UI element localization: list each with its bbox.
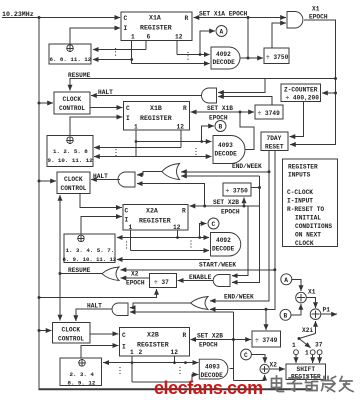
wire adder1 to adder2 — [306, 298, 315, 308]
wire switch arm — [299, 334, 316, 339]
svg-text:1: 1 — [130, 349, 134, 356]
svg-text:CONDITIONS: CONDITIONS — [295, 223, 332, 230]
decoder 4093 DECODE (X2B) — [199, 359, 228, 379]
svg-text:CLOCK: CLOCK — [64, 176, 83, 183]
wire SET X2B EPOCH (X2A row) — [190, 205, 260, 207]
wire halt gate1 input B from 3749 — [218, 97, 272, 106]
box CLOCK CONTROL 2 — [57, 172, 90, 194]
svg-text:CLOCK: CLOCK — [295, 240, 314, 247]
wire 3750-2 output to end/week vertical — [251, 187, 260, 189]
divider 3750 (X1A) — [264, 48, 289, 64]
wire 7day out1 down to OR3 in1 — [210, 151, 269, 301]
wire halt gate2 input 2 from set-x2b — [137, 184, 205, 206]
svg-text:REGISTER: REGISTER — [137, 342, 169, 349]
svg-text:÷ 3749: ÷ 3749 — [258, 110, 281, 117]
box CLOCK CONTROL 3 — [53, 323, 91, 344]
svg-text:4092: 4092 — [216, 51, 231, 58]
svg-text:C-CLOCK: C-CLOCK — [287, 189, 313, 196]
and-gate X1 EPOCH — [287, 12, 303, 29]
wire clock bus to clock control 3 — [38, 329, 41, 332]
watermark chinese characters — [272, 376, 354, 392]
divider 37 — [150, 274, 177, 288]
register X2A — [123, 205, 188, 231]
svg-text:1: 1 — [131, 34, 135, 41]
svg-text:END/WEEK: END/WEEK — [232, 163, 262, 170]
wire X2 into shift register — [269, 368, 285, 370]
svg-text:RESET: RESET — [265, 144, 284, 151]
register SHIFT REGISTER — [286, 364, 326, 380]
svg-text:HALT: HALT — [87, 303, 102, 310]
svg-text:DECODE: DECODE — [212, 246, 235, 253]
svg-text:÷ 400,200: ÷ 400,200 — [286, 95, 320, 102]
node A tap circle — [216, 26, 227, 37]
svg-text:A: A — [220, 29, 224, 36]
and-gate X2A halt (mirrored) — [118, 172, 135, 187]
svg-text:4093: 4093 — [218, 142, 233, 149]
wire A to adder1 — [292, 279, 301, 291]
counter Z-COUNTER — [281, 84, 321, 102]
wire clock line to div37 bottom — [38, 296, 41, 299]
svg-text:8. 9. 10. 11. 12: 8. 9. 10. 11. 12 — [63, 256, 117, 263]
wire Z-counter to 7day reset — [290, 102, 304, 137]
svg-text:DECODE: DECODE — [215, 151, 238, 158]
wire P1 output — [321, 313, 337, 315]
svg-text:I: I — [126, 115, 130, 122]
node A output circle — [281, 274, 292, 285]
svg-text:INITIAL: INITIAL — [295, 215, 321, 222]
wire div37 out to OR2 — [121, 277, 150, 279]
node B output circle — [280, 309, 291, 320]
svg-text:X1: X1 — [312, 6, 320, 13]
xor-box G3 taps 1.3.4.5.7/8.9.10.11.12 — [64, 234, 115, 263]
svg-text:2: 2 — [139, 349, 143, 356]
register X2B — [119, 327, 189, 356]
wire 4093-2 out up to set wire and halt gate — [230, 312, 234, 369]
register X1A — [121, 12, 192, 41]
wire C to X2 adder — [251, 355, 265, 364]
wire contacts into shift register — [295, 355, 297, 363]
wire X2 epoch down to clock control 3 — [59, 274, 61, 321]
wire X2B pin12 feedback — [174, 356, 176, 363]
wire 7day out2 down to OR3 in2 — [210, 151, 275, 310]
svg-text:1: 1 — [134, 124, 138, 131]
svg-text:CLOCK: CLOCK — [63, 96, 82, 103]
and-gate X1B halt (mirrored) — [202, 88, 217, 103]
svg-text:C: C — [125, 208, 129, 215]
svg-text:÷ 3750: ÷ 3750 — [226, 188, 249, 195]
svg-text:6. 8. 11. 12: 6. 8. 11. 12 — [50, 56, 92, 63]
svg-text:REGISTER: REGISTER — [140, 115, 172, 122]
svg-text:R: R — [183, 105, 187, 112]
svg-text:X1A: X1A — [149, 15, 161, 22]
wire halt gate1 input A — [218, 79, 265, 93]
svg-text:C: C — [124, 15, 128, 22]
svg-text:REGISTER: REGISTER — [288, 164, 318, 171]
node ellipsis marks X2A feedback — [126, 241, 127, 248]
svg-text:SET X1B: SET X1B — [207, 105, 233, 112]
svg-text:CONTROL: CONTROL — [59, 105, 85, 112]
svg-text:12: 12 — [177, 124, 185, 131]
svg-text:1: 1 — [129, 224, 133, 231]
wire clock bus to clock control 1 — [38, 102, 41, 105]
svg-text:CONTROL: CONTROL — [61, 185, 87, 192]
svg-text:HALT: HALT — [98, 89, 113, 96]
wire 3750 to X1 epoch gate — [272, 23, 286, 48]
wire 4092 out to divider — [240, 57, 263, 59]
svg-text:REGISTER: REGISTER — [140, 25, 172, 32]
svg-text:ENABLE: ENABLE — [189, 274, 212, 281]
wire 4093 output up to set wire — [240, 112, 254, 150]
wire branch up into divider 3750-2 — [243, 198, 245, 207]
svg-text:RESUME: RESUME — [68, 267, 91, 274]
wire END/WEEK to OR1 — [181, 171, 269, 173]
box CLOCK CONTROL 1 — [54, 92, 90, 114]
register X1B — [123, 102, 189, 130]
or-gate OR2 X2 resume (mirrored) — [102, 267, 119, 281]
wire into Z-counter — [322, 92, 336, 94]
decoder 4092 DECODE (X1A) — [211, 47, 240, 69]
svg-text:B: B — [284, 312, 288, 319]
svg-text:9. 10. 11. 12: 9. 10. 11. 12 — [48, 157, 94, 164]
svg-text:12: 12 — [171, 349, 179, 356]
svg-text:DECODE: DECODE — [213, 59, 236, 66]
wire SET X2B EPOCH (X2B row) — [190, 339, 233, 341]
svg-text:START/WEEK: START/WEEK — [199, 262, 236, 269]
wire OR3 out to halt gate 3 — [130, 303, 191, 308]
svg-text:4093: 4093 — [205, 364, 220, 371]
svg-text:CONTROL: CONTROL — [58, 336, 84, 343]
svg-text:X2i: X2i — [302, 327, 313, 334]
wire XOR1 output to I of X1A — [70, 28, 120, 44]
wire X1A pin1 feedback — [131, 41, 133, 64]
svg-text:6: 6 — [147, 34, 151, 41]
wire XOR2 output to I of X1B — [70, 117, 122, 136]
svg-text:P1: P1 — [323, 307, 331, 314]
wire START/WEEK to OR2 — [121, 269, 275, 271]
adder XOR X1 — [296, 292, 307, 303]
decoder 4092 DECODE (X2A) — [211, 233, 241, 257]
adder XOR P1 — [310, 309, 321, 320]
svg-text:12: 12 — [173, 224, 181, 231]
svg-text:SET X2B: SET X2B — [197, 333, 223, 340]
wire into 3749-2 top — [265, 309, 267, 330]
svg-text:R: R — [182, 208, 186, 215]
svg-text:Z-COUNTER: Z-COUNTER — [284, 87, 318, 94]
wire X2B signal up into adder from below — [233, 375, 264, 381]
wire clock control 3 to C of X2B — [90, 333, 118, 335]
wire clock control 2 to C of X2A — [80, 194, 122, 208]
wire HALT3 to clock control 3 — [76, 309, 113, 321]
svg-text:C: C — [212, 221, 216, 228]
wire enable gate out to div37 — [178, 280, 214, 282]
svg-text:CLOCK: CLOCK — [62, 327, 81, 334]
wire OR2 out to resume bus — [60, 273, 102, 275]
node ellipsis marks X1B feedback — [115, 149, 116, 156]
svg-text:B: B — [219, 124, 223, 131]
svg-text:A: A — [284, 277, 288, 284]
node C output circle — [241, 349, 252, 360]
svg-text:1. 3. 4. 5. 7.: 1. 3. 4. 5. 7. — [66, 247, 115, 254]
svg-text:X2B: X2B — [147, 332, 159, 339]
or-gate OR1 (mirrored) — [162, 164, 180, 180]
svg-text:C: C — [122, 332, 126, 339]
svg-text:X2: X2 — [131, 271, 139, 278]
node ellipsis marks X1A feedback — [115, 48, 116, 56]
svg-text:REGISTER: REGISTER — [139, 218, 171, 225]
wire X1B pin12 feedback — [180, 130, 182, 148]
svg-text:÷ 3749: ÷ 3749 — [255, 337, 278, 344]
svg-text:I: I — [122, 344, 126, 351]
divider 3749 (X1B) — [255, 105, 283, 119]
wire SET X1B EPOCH — [191, 111, 240, 113]
wire X1 EPOCH output down right side — [290, 20, 336, 145]
svg-text:EPOCH: EPOCH — [221, 209, 240, 216]
svg-text:EPOCH: EPOCH — [199, 342, 218, 349]
wire tap to A — [200, 31, 215, 55]
svg-text:X2A: X2A — [146, 208, 158, 215]
svg-text:C: C — [126, 105, 130, 112]
svg-text:R: R — [183, 332, 187, 339]
svg-text:I: I — [124, 25, 128, 32]
wire set net down to enable gate — [232, 206, 248, 276]
svg-text:R-RESET TO: R-RESET TO — [287, 206, 324, 213]
xor-box G2 taps 1.2.5.8/9.10.11.12 — [47, 136, 93, 167]
svg-text:÷ 3750: ÷ 3750 — [266, 54, 289, 61]
svg-text:1: 1 — [292, 342, 296, 349]
box 7DAY RESET — [261, 132, 288, 151]
svg-text:END/WEEK: END/WEEK — [224, 294, 254, 301]
wire X1A pin6 feedback — [145, 41, 147, 50]
box REGISTER INPUTS legend — [283, 159, 338, 247]
svg-text:elecfans.com: elecfans.com — [154, 378, 263, 398]
node C tap circle — [208, 218, 219, 229]
bottom border line — [39, 388, 313, 390]
and-gate X2B halt (mirrored) — [112, 303, 128, 316]
svg-text:4092: 4092 — [216, 237, 231, 244]
wire X2A pin1 feedback — [130, 230, 132, 251]
svg-text:RESUME: RESUME — [68, 72, 91, 79]
svg-text:ON NEXT: ON NEXT — [295, 232, 321, 239]
node B tap circle — [215, 121, 226, 132]
wire clock control 1 to C of X1B — [90, 107, 122, 109]
svg-text:I-INPUT: I-INPUT — [287, 198, 313, 205]
svg-text:12: 12 — [175, 34, 183, 41]
wire tap to B — [202, 126, 214, 142]
svg-text:EPOCH: EPOCH — [126, 280, 145, 287]
divider 3749 (X2B) — [252, 331, 281, 347]
wire X2B pin1 feedback — [131, 356, 133, 382]
svg-text:HALT: HALT — [93, 173, 108, 180]
svg-text:SET X2B: SET X2B — [213, 199, 239, 206]
svg-text:8. 9. 12: 8. 9. 12 — [68, 380, 96, 387]
svg-text:C: C — [244, 352, 248, 359]
and-gate X2 enable (mirrored) — [213, 275, 230, 287]
wire X2A pin12 feedback — [177, 230, 179, 238]
wire X1B pin1 feedback — [135, 130, 137, 157]
wire main clock vertical bus — [38, 18, 40, 390]
wire resume2 from X2 epoch — [59, 195, 61, 274]
svg-text:7DAY: 7DAY — [267, 135, 282, 142]
wire OR1 input 2 — [181, 175, 260, 177]
svg-text:1: 1 — [305, 350, 309, 357]
wire OR1 out to halt gate 2 — [137, 172, 162, 175]
wire RESUME X1 epoch to clock control 1 — [70, 79, 336, 91]
svg-text:INPUTS: INPUTS — [288, 172, 311, 179]
or-gate OR3 (mirrored) — [191, 297, 209, 310]
node junction on clock line — [38, 16, 41, 19]
wire HALT2 to clock control 2 — [91, 179, 120, 181]
svg-text:37: 37 — [315, 342, 323, 349]
svg-text:10.23MHz: 10.23MHz — [2, 11, 34, 18]
wire B to adder1 — [291, 304, 301, 315]
divider 3750 (X2A) — [223, 183, 251, 196]
adder XOR X2 — [260, 364, 269, 373]
svg-text:X2: X2 — [270, 362, 278, 369]
wire XOR3 to I of X2A — [81, 217, 122, 234]
wire X2A lower tap line — [117, 259, 210, 261]
wire X2i from switch to adder2 — [315, 321, 317, 334]
node ellipsis marks X2B feedback — [119, 367, 120, 374]
svg-text:X1: X1 — [308, 289, 316, 296]
xor-box G4 taps 2.3.4/8.9.12 — [60, 358, 102, 386]
wire HALT to clock control 1 — [91, 95, 202, 97]
svg-text:I: I — [125, 217, 129, 224]
svg-text:X1B: X1B — [150, 105, 162, 112]
xor-box G1 taps 6.8.11.12 — [49, 44, 91, 64]
wire X1A pin12 feedback — [176, 41, 178, 55]
svg-text:SET X1A EPOCH: SET X1A EPOCH — [199, 11, 248, 18]
wire 10.23MHz to C of X1A — [2, 17, 120, 19]
svg-text:÷ 37: ÷ 37 — [154, 279, 169, 286]
wire end/week vertical — [232, 176, 260, 282]
wire XOR4 to I of X2B — [81, 346, 118, 359]
svg-text:R: R — [185, 15, 189, 22]
svg-text:SHIFT: SHIFT — [297, 366, 316, 373]
wire tap to C — [200, 224, 207, 238]
wire halt gate3 in2 from set-x2b-2 net — [130, 311, 234, 313]
wire SET X1A EPOCH — [194, 17, 249, 19]
decoder 4093 DECODE (X1B) — [213, 136, 245, 164]
svg-text:1. 2. 5. 8: 1. 2. 5. 8 — [53, 148, 88, 155]
wire clock bus to clock control 2 — [38, 180, 41, 183]
svg-text:2. 3. 4: 2. 3. 4 — [70, 371, 95, 378]
